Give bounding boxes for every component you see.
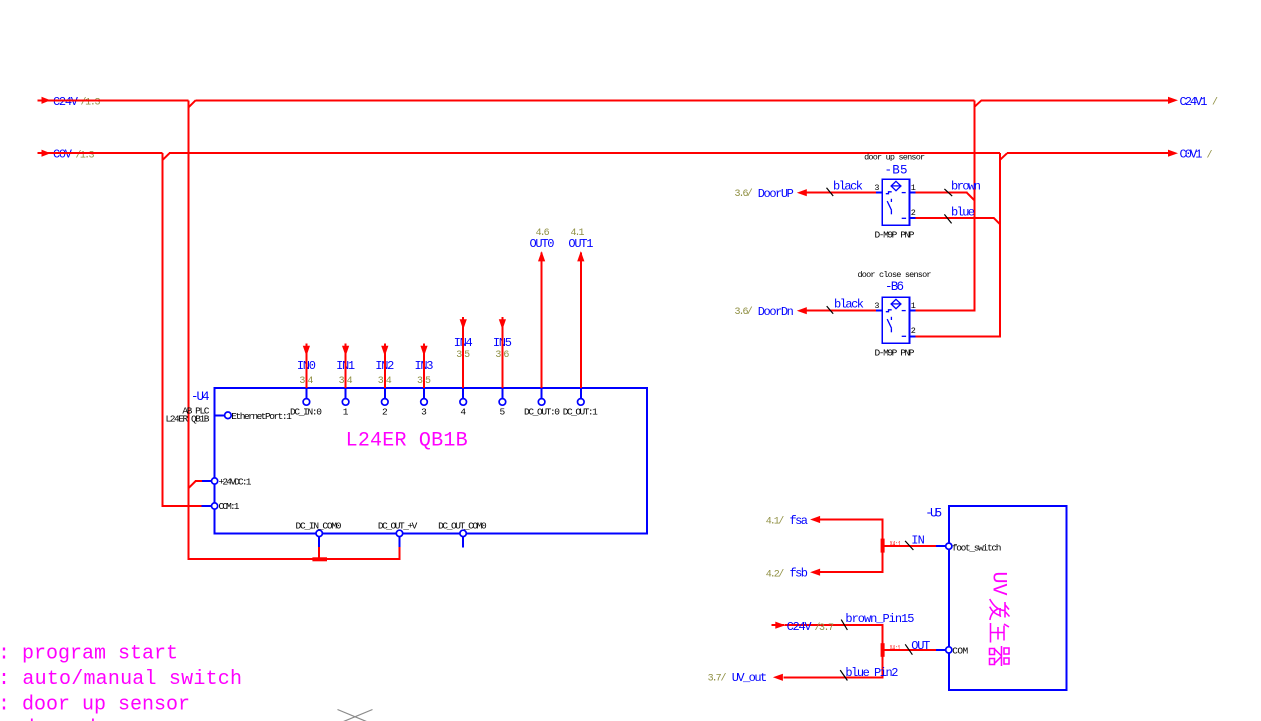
wire terminal to COM pin — [885, 649, 937, 651]
uv generator U5 rotated title UV发生器 — [987, 572, 1010, 667]
svg-text:C24V1: C24V1 — [1180, 95, 1208, 109]
svg-text:DC_OUT:0: DC_OUT:0 — [524, 406, 560, 417]
svg-text:/: / — [747, 188, 753, 200]
svg-text:X4:1: X4:1 — [890, 645, 901, 653]
svg-text:X4:1: X4:1 — [890, 541, 901, 549]
svg-text:brown: brown — [951, 180, 981, 194]
net label C24V (left rail entry) — [53, 95, 101, 109]
svg-text:OUT1: OUT1 — [568, 237, 593, 251]
svg-text:L24ER QB1B: L24ER QB1B — [166, 414, 210, 425]
svg-text:DC_IN:0: DC_IN:0 — [290, 406, 322, 417]
svg-text:OUT0: OUT0 — [530, 237, 555, 251]
svg-text:/: / — [778, 516, 784, 528]
svg-text:1: 1 — [911, 183, 916, 193]
svg-text:3: 3 — [874, 183, 879, 193]
svg-text:5: 5 — [500, 406, 506, 417]
svg-text:blue: blue — [951, 206, 975, 220]
reference 3.6 / for DoorUP — [735, 188, 753, 200]
pin COM:1 circle — [212, 503, 218, 509]
net label C0V1 (right rail exit) — [1180, 148, 1213, 162]
wire mark slash on IN wire — [905, 541, 913, 550]
pin DC_OUT:1 circle — [578, 399, 585, 406]
svg-text:L24ER QB1B: L24ER QB1B — [346, 429, 468, 452]
svg-text:/: / — [778, 568, 784, 580]
svg-text:/: / — [1207, 150, 1213, 162]
reference 4.1 / for fsa — [766, 516, 785, 528]
svg-text:DoorDn: DoorDn — [758, 305, 794, 319]
sensor B5 symbol body — [882, 179, 909, 225]
reference 3.6 / for DoorDn — [735, 306, 753, 318]
svg-text:/1.3: /1.3 — [76, 150, 95, 162]
arrow C0V rail source (points right) — [42, 150, 51, 157]
reference 3.7 / for UV_out — [708, 673, 727, 685]
svg-text:3.7: 3.7 — [708, 674, 722, 685]
wire IN5 — [501, 317, 503, 388]
svg-text:: auto/manual switch: : auto/manual switch — [0, 668, 242, 691]
svg-text:2: 2 — [382, 406, 388, 417]
pin EthernetPort:1 circle — [225, 412, 232, 419]
svg-text:DoorUP: DoorUP — [758, 187, 794, 201]
pin foot_switch circle — [946, 543, 952, 549]
pin DC_OUT:0 circle — [538, 399, 545, 406]
arrow IN2 (points down) — [381, 346, 388, 356]
arrow OUT1 (points up) — [577, 251, 584, 261]
wire mark slash on DoorDn wire — [827, 306, 834, 314]
wire IN0 — [305, 343, 307, 388]
svg-text:-B5: -B5 — [885, 163, 908, 177]
svg-text:2: 2 — [911, 208, 916, 218]
terminal X4:1 thick bar (lamp output) — [881, 643, 885, 657]
wire mark slash on brown_Pin15 wire — [841, 620, 847, 630]
wire terminal to foot_switch pin — [885, 545, 936, 547]
svg-text:C0V1: C0V1 — [1180, 148, 1203, 162]
sensor B6 pin stubs (blue) — [876, 311, 916, 337]
pin +24VDC:1 stub — [202, 480, 211, 482]
svg-text:UV_out: UV_out — [732, 671, 768, 685]
arrow fsa (points left) — [810, 516, 820, 523]
pin DC_OUT_COM0 circle — [460, 530, 466, 536]
net label C0V (left rail entry) — [53, 148, 95, 162]
wire C0V1 drop to sensors (x=1000.2) — [916, 153, 1001, 336]
arrow IN5 (points down) — [499, 319, 506, 329]
svg-text:C24V: C24V — [53, 95, 79, 109]
wire mark slash on blue wire — [944, 214, 951, 223]
wire C24V drop to DC_IN_COM0 rail (x=188.7) — [189, 100, 400, 559]
arrow IN1 (points down) — [342, 346, 349, 356]
svg-text:fsa: fsa — [790, 514, 809, 528]
wire DC_IN_COM0 drop — [318, 547, 320, 558]
svg-text:-U5: -U5 — [925, 507, 942, 521]
svg-text:3: 3 — [421, 406, 427, 417]
svg-text:black: black — [833, 179, 863, 193]
pin 2 circle — [382, 399, 389, 406]
svg-text:fsb: fsb — [790, 567, 809, 581]
svg-text:blue Pin2: blue Pin2 — [845, 666, 898, 680]
svg-text:: door down sensor: : door down sensor — [0, 718, 218, 721]
svg-text:: program start: : program start — [0, 643, 178, 666]
wire branch to +24VDC:1 pin — [189, 481, 203, 488]
terminal X4:1 thick bar (foot switch) — [881, 539, 885, 553]
pin 1 circle — [342, 399, 349, 406]
arrow UV_out (points left) — [773, 674, 783, 681]
svg-text:D-M9P PNP: D-M9P PNP — [875, 348, 915, 359]
svg-text:DC_IN_COM0: DC_IN_COM0 — [296, 521, 342, 532]
reference 4.2 / for fsb — [766, 568, 785, 580]
arrow OUT0 (points up) — [538, 251, 545, 261]
svg-text:2: 2 — [911, 326, 916, 336]
wire C0V rail horizontal — [38, 153, 1169, 160]
junction thick bar on DC_IN_COM0 rail — [312, 557, 327, 561]
svg-text:: door up sensor: : door up sensor — [0, 694, 190, 717]
arrow C24V rail source (points right) — [42, 97, 51, 104]
wire mark slash on brown wire — [944, 189, 952, 196]
arrow DoorDn (points left) — [797, 307, 807, 314]
svg-text:DC_OUT:1: DC_OUT:1 — [563, 406, 598, 417]
svg-text:door up sensor: door up sensor — [864, 153, 925, 163]
svg-text:4: 4 — [460, 406, 466, 417]
arrow DoorUP (points left) — [797, 189, 807, 196]
pin EthernetPort:1 stub — [215, 414, 225, 416]
pin COM circle — [946, 647, 952, 653]
net label C24V1 (right rail exit) — [1180, 95, 1219, 109]
svg-text:COM:1: COM:1 — [219, 501, 240, 512]
pin DC_IN_COM0 circle — [316, 530, 322, 536]
sensor B5 pin stubs (blue) — [876, 193, 916, 219]
svg-text:UV: UV — [987, 572, 1010, 596]
svg-text:-U4: -U4 — [191, 390, 210, 404]
svg-text:brown_Pin15: brown_Pin15 — [845, 612, 914, 626]
sensor B6 symbol body — [882, 297, 909, 343]
wire fsa/fsb loop — [820, 520, 882, 573]
arrow C24V1 rail destination (points right) — [1168, 97, 1178, 104]
arrow C0V1 rail destination (points right) — [1168, 150, 1178, 157]
arrow IN0 (points down) — [303, 346, 310, 356]
wire C24V1 drop to sensors (x=974.6) — [916, 100, 975, 310]
arrow IN4 (points down) — [460, 319, 467, 329]
svg-text:/3.7: /3.7 — [815, 622, 835, 634]
wire mark slash on blue Pin2 wire — [840, 670, 847, 680]
svg-text:COM: COM — [952, 645, 968, 656]
pin 4 circle — [460, 399, 467, 406]
wire DoorUP to B5 pin3 — [807, 192, 877, 194]
wire IN2 — [384, 343, 386, 388]
wire C0V drop to COM:1 (x=162.5) — [163, 153, 202, 506]
svg-text:1: 1 — [911, 301, 916, 311]
svg-text:OUT: OUT — [911, 639, 930, 653]
pin DC_OUT_+V circle — [396, 530, 402, 536]
uv generator U5 body rectangle — [949, 506, 1067, 690]
svg-text:/1.3: /1.3 — [81, 97, 101, 109]
svg-text:DC_OUT_COM0: DC_OUT_COM0 — [438, 521, 487, 532]
svg-text:1: 1 — [343, 406, 349, 417]
svg-text:/: / — [1212, 97, 1218, 109]
svg-text:D-M9P PNP: D-M9P PNP — [875, 230, 915, 241]
plc top pin stubs — [306, 388, 580, 398]
plc U4 body rectangle — [215, 388, 647, 533]
svg-text:/: / — [747, 306, 753, 318]
wire C24V rail horizontal — [38, 100, 1169, 107]
wire DoorDn to B6 pin3 — [807, 310, 877, 312]
svg-text:/: / — [721, 673, 727, 685]
wire IN4 — [462, 317, 464, 388]
wire OUT1 — [580, 253, 582, 389]
svg-text:C24V: C24V — [787, 620, 813, 634]
wire B5 pin2 to C0V1 drop (blue) — [916, 218, 1001, 224]
pin COM stub — [936, 649, 945, 651]
wire IN3 — [423, 343, 425, 388]
svg-text:foot_switch: foot_switch — [952, 542, 1002, 553]
svg-text:EthernetPort:1: EthernetPort:1 — [231, 411, 292, 422]
pin DC_IN:0 circle — [303, 399, 310, 406]
pin 5 circle — [499, 399, 506, 406]
svg-text:IN: IN — [911, 534, 925, 548]
wire C24V feed to terminal (brown_Pin15) — [771, 625, 882, 677]
svg-text:-B6: -B6 — [885, 280, 904, 294]
svg-text:door close sensor: door close sensor — [858, 270, 932, 280]
svg-text:C0V: C0V — [53, 148, 73, 162]
arrow C24V feed (points right) — [775, 622, 785, 629]
plc bottom pin stubs — [319, 537, 463, 548]
pin COM:1 stub — [202, 505, 212, 507]
wire mark slash on OUT wire — [905, 644, 912, 654]
pin +24VDC:1 circle — [212, 478, 218, 484]
svg-text:DC_OUT_+V: DC_OUT_+V — [378, 521, 418, 532]
svg-text:black: black — [834, 297, 864, 311]
wire IN1 — [345, 343, 347, 388]
pin foot_switch stub — [936, 545, 946, 547]
wire mark slash on DoorUP wire — [827, 188, 834, 196]
wire OUT0 — [541, 253, 543, 389]
frame break mark X — [338, 710, 373, 721]
svg-text:3: 3 — [874, 301, 879, 311]
arrow IN3 (points down) — [420, 346, 427, 356]
arrow fsb (points left) — [810, 569, 820, 576]
pin 3 circle — [421, 399, 428, 406]
svg-text:+24VDC:1: +24VDC:1 — [219, 476, 252, 487]
wire B5 pin1 to C24V1 drop (brown) — [916, 193, 975, 201]
